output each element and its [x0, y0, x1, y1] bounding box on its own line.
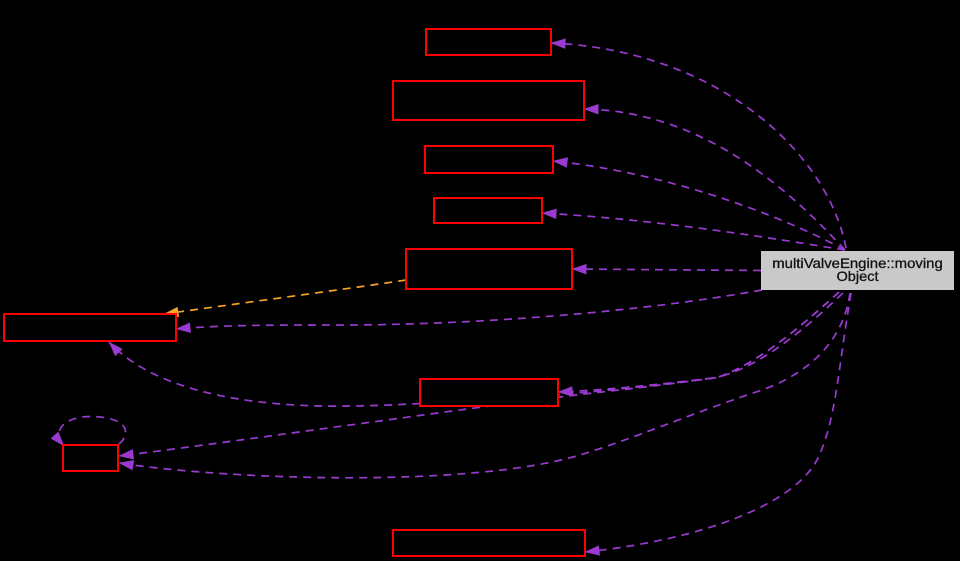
- edge: movingObject to small box (lower): [119, 293, 850, 478]
- edge: movingObject to node7: [558, 292, 839, 392]
- edge: movingObject to node3: [553, 161, 845, 250]
- node7 box: [420, 379, 558, 406]
- edge: movingObject to node4: [542, 213, 845, 250]
- left box: [4, 314, 176, 341]
- svg-text:Object: Object: [837, 268, 879, 284]
- edge: small box self loop: [59, 416, 125, 446]
- edge: movingObject to node1 (top box): [551, 43, 846, 248]
- node2 box: [393, 81, 584, 120]
- bottom box: [393, 530, 585, 556]
- node4 box: [434, 198, 542, 223]
- node3 box: [425, 146, 553, 173]
- edge: movingObject to bottom box: [585, 293, 851, 552]
- edge: movingObject to left box (right side): [176, 290, 762, 329]
- edge: movingObject to left box (bottom side, behind node7): [109, 292, 839, 406]
- small box: [63, 445, 118, 471]
- central node multiValveEngine::movingObject: [761, 251, 954, 290]
- edge: movingObject to node5: [572, 269, 761, 271]
- edge: movingObject to small box (upper): [119, 293, 843, 456]
- edge: movingObject to node2: [584, 109, 845, 250]
- edge: orange template relation node5 to left box: [164, 280, 406, 314]
- node5 box: [406, 249, 572, 289]
- node1 top box: [426, 29, 551, 55]
